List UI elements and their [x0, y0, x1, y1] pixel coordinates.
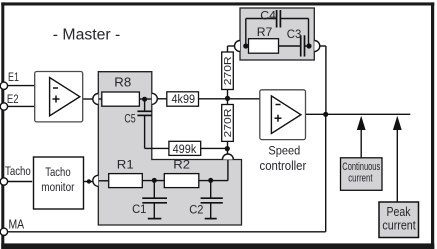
- svg-text:Speed: Speed: [268, 143, 300, 157]
- svg-text:270R: 270R: [222, 108, 234, 137]
- svg-text:Continuous: Continuous: [342, 161, 380, 173]
- svg-text:C2: C2: [189, 203, 203, 217]
- svg-text:MA: MA: [9, 218, 25, 232]
- svg-text:499k: 499k: [173, 142, 197, 156]
- svg-text:monitor: monitor: [41, 180, 74, 194]
- svg-text:Tacho: Tacho: [5, 164, 31, 178]
- svg-text:R7: R7: [257, 25, 273, 39]
- svg-text:Tacho: Tacho: [45, 165, 70, 179]
- svg-text:270R: 270R: [222, 56, 234, 85]
- svg-text:4k99: 4k99: [172, 92, 196, 106]
- svg-text:C5: C5: [124, 112, 135, 126]
- svg-text:C4: C4: [260, 8, 276, 22]
- svg-text:C3: C3: [287, 27, 302, 41]
- svg-text:R1: R1: [117, 158, 134, 172]
- svg-text:current: current: [348, 172, 372, 184]
- svg-text:C1: C1: [132, 202, 146, 216]
- svg-text:- Master -: - Master -: [53, 27, 121, 44]
- svg-text:controller: controller: [260, 158, 307, 173]
- svg-text:R2: R2: [173, 158, 190, 172]
- svg-text:R8: R8: [114, 76, 131, 90]
- svg-text:E2: E2: [7, 92, 19, 106]
- svg-text:current: current: [382, 218, 416, 233]
- svg-text:E1: E1: [8, 70, 19, 84]
